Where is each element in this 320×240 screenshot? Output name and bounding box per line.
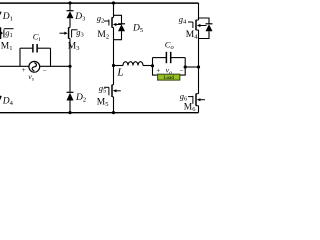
node mid-legA — [68, 65, 71, 68]
wire output left vertical — [153, 58, 158, 76]
wire output right vertical — [180, 58, 185, 76]
wire top rail — [0, 2, 199, 4]
wire leg B M2 source down to L node — [113, 28, 115, 85]
node L-legB — [112, 64, 115, 67]
inductor L — [123, 62, 143, 66]
node top-legA — [68, 1, 71, 4]
load box — [158, 74, 180, 81]
capacitor Co plates — [165, 52, 167, 63]
mosfet M3 — [60, 27, 78, 38]
capacitor Ci plates — [32, 44, 34, 53]
node output-legC — [197, 65, 200, 68]
diode D3 — [67, 11, 74, 19]
wire leg A D2 to bottom — [69, 101, 71, 113]
wire leg B M5 source to bottom — [113, 97, 115, 113]
diode D1 (clipped at left edge) — [0, 12, 2, 16]
mosfet M5 — [104, 85, 121, 97]
wire leg C top corner — [198, 3, 200, 20]
svg-text:+: + — [22, 66, 26, 74]
capacitor Co leads — [153, 57, 167, 59]
wire L left lead — [114, 65, 124, 67]
wire leg A vertical top — [69, 3, 71, 11]
wire leg A D3 to M3 — [69, 18, 71, 27]
junction node dots — [68, 1, 200, 114]
svg-text:L: L — [116, 66, 123, 78]
wire leg B vertical top — [113, 3, 115, 18]
wire D5 bottom branch — [114, 31, 122, 40]
wire D5 top branch — [114, 15, 122, 23]
diode D6 — [206, 24, 213, 31]
mosfet M6 — [188, 94, 205, 106]
diode D5 — [118, 24, 125, 31]
node bottom-legA — [68, 111, 71, 114]
svg-text:−: − — [43, 67, 47, 75]
wire output node to leg C — [185, 66, 198, 68]
wire leg A M3 to mid node — [69, 39, 71, 93]
wire D6 bottom branch — [199, 31, 210, 38]
wire L right lead — [143, 65, 153, 67]
diode D2 — [67, 92, 74, 100]
mosfet M4 — [188, 20, 207, 30]
wire leg C M4 source to M6 — [198, 30, 200, 94]
svg-text:−: − — [179, 67, 183, 75]
mosfet M2 — [104, 17, 122, 27]
wire bottom rail — [0, 112, 199, 114]
mosfet M1 (clipped at left edge) — [1, 27, 14, 39]
node output-left — [151, 64, 154, 67]
wire leg C M6 source to bottom — [198, 106, 200, 113]
svg-text:+: + — [156, 66, 160, 74]
node output-right — [184, 65, 187, 68]
diode D4 (clipped at left edge) — [0, 96, 2, 101]
source vs (AC) — [29, 61, 40, 72]
node bottom-legB — [112, 111, 115, 114]
capacitor Ci leads — [20, 47, 33, 49]
wire D6 top branch — [199, 18, 210, 24]
node top-legB — [112, 1, 115, 4]
wire left cap branch verticals — [19, 48, 21, 66]
wire mid rail left — [0, 65, 29, 67]
svg-text:Load: Load — [163, 75, 174, 81]
